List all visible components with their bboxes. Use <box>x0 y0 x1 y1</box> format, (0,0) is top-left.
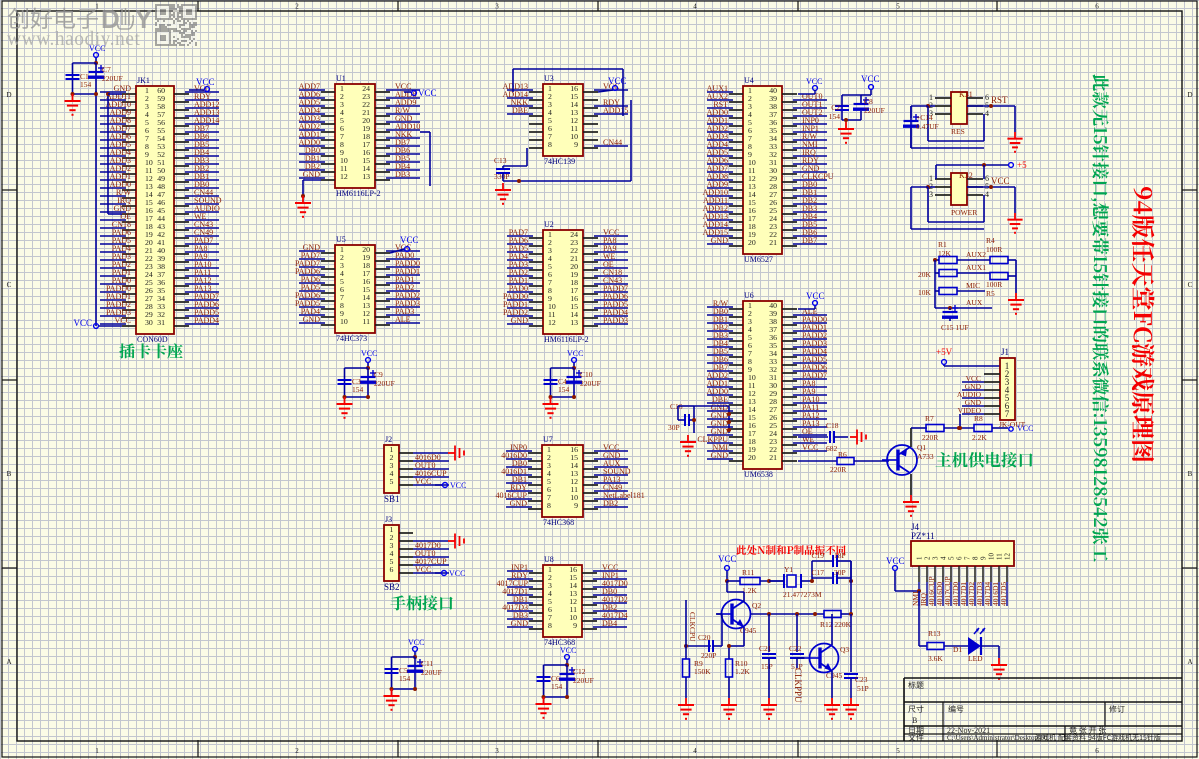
svg-text:RST: RST <box>991 95 1008 105</box>
svg-text:CLKCPU: CLKCPU <box>688 612 697 642</box>
svg-text:4: 4 <box>985 190 989 199</box>
svg-text:1: 1 <box>95 747 99 755</box>
svg-text:220UF: 220UF <box>864 106 885 115</box>
svg-text:PADD4: PADD4 <box>194 316 219 325</box>
svg-text:11: 11 <box>996 553 1004 560</box>
svg-text:8: 8 <box>547 501 551 510</box>
ground at x=832 oscillator <box>824 698 840 719</box>
svg-text:U5: U5 <box>336 235 346 244</box>
capacitor C16 30P <box>668 402 731 433</box>
svg-text:4: 4 <box>693 3 697 11</box>
svg-text:Q1: Q1 <box>917 443 926 452</box>
net label VCC at U3 pin16 <box>598 76 627 92</box>
wire GND loop left of JK1 <box>106 92 122 214</box>
capacitor C5 / C11 decoupling pair bottom left <box>384 638 442 710</box>
svg-text:+5V: +5V <box>936 347 953 357</box>
svg-text:30P: 30P <box>834 568 846 577</box>
svg-text:C945: C945 <box>740 626 757 635</box>
svg-text:D1: D1 <box>953 645 962 654</box>
svg-text:1: 1 <box>95 3 99 11</box>
ground below C13 <box>495 183 511 204</box>
svg-text:C945: C945 <box>826 671 843 680</box>
svg-text:AUX1: AUX1 <box>966 263 986 272</box>
watermark QR code <box>155 4 197 46</box>
svg-text:C: C <box>1188 281 1193 289</box>
resistor R2 20K <box>918 270 957 280</box>
capacitor C3 / C9 decoupling pair near U5 <box>337 349 395 418</box>
svg-text:1: 1 <box>916 556 924 560</box>
resistor R3 10K <box>918 288 957 298</box>
svg-text:R5: R5 <box>986 289 995 298</box>
svg-text:150K: 150K <box>694 667 711 676</box>
svg-text:Q2: Q2 <box>752 601 761 610</box>
capacitor C19 18P <box>811 551 851 581</box>
wire junction R7/R8 up to J1 pin1 <box>958 414 962 430</box>
IC U4 UM6527 <box>703 76 834 264</box>
svg-text:J2: J2 <box>385 435 392 444</box>
svg-text:VCC: VCC <box>450 481 466 490</box>
LED D1 <box>953 628 999 663</box>
svg-text:R8: R8 <box>974 414 983 423</box>
svg-text:CLKPPU: CLKPPU <box>793 668 803 703</box>
svg-text:220R: 220R <box>922 433 938 442</box>
svg-text:C10: C10 <box>580 370 593 379</box>
svg-text:UM6527: UM6527 <box>744 255 773 264</box>
svg-text:VCC: VCC <box>802 443 818 452</box>
svg-text:13: 13 <box>570 318 578 327</box>
svg-text:154: 154 <box>829 112 841 121</box>
ground at x=769 oscillator <box>761 698 777 719</box>
svg-text:9: 9 <box>573 621 577 630</box>
ground right of R4/R5 <box>1008 293 1024 314</box>
ground (sideways) right of C18 <box>850 430 866 445</box>
crystal Y1 21.477273M <box>769 565 822 599</box>
svg-text:74HC368: 74HC368 <box>543 518 574 527</box>
svg-text:VCC: VCC <box>806 291 825 301</box>
svg-text:SB2: SB2 <box>384 582 400 592</box>
resistor R4 100R <box>986 236 1016 264</box>
capacitor C13 330P <box>494 148 527 181</box>
net label VCC at U6 pin40 <box>798 291 825 309</box>
capacitor C22 51P <box>789 614 804 671</box>
svg-text:9: 9 <box>980 556 988 560</box>
label (red) 此处N制和P制晶振不同 <box>736 545 845 555</box>
svg-text:GND: GND <box>511 316 529 325</box>
svg-text:12: 12 <box>340 172 348 181</box>
svg-text:21: 21 <box>769 453 777 462</box>
svg-text:+C14: +C14 <box>916 113 933 122</box>
svg-text:VCC: VCC <box>991 176 1010 186</box>
svg-text:GND: GND <box>711 451 729 460</box>
svg-text:PADD3: PADD3 <box>603 316 628 325</box>
svg-text:C9: C9 <box>374 370 383 379</box>
svg-text:HM6116LP-2: HM6116LP-2 <box>336 189 381 198</box>
svg-text:J3: J3 <box>385 515 392 524</box>
svg-text:15P: 15P <box>761 662 773 671</box>
svg-text:51P: 51P <box>857 684 869 693</box>
svg-text:U7: U7 <box>543 435 553 444</box>
svg-text:C:\Users\Administrator\Desktop: C:\Users\Administrator\Desktop\FC <box>947 734 1049 742</box>
resistor R5 100R <box>986 273 1016 299</box>
svg-text:11: 11 <box>362 317 370 326</box>
svg-text:R6: R6 <box>838 450 847 459</box>
svg-text:220UF: 220UF <box>374 379 395 388</box>
ground below Q1 <box>903 495 919 516</box>
svg-text:74HC373: 74HC373 <box>336 334 367 343</box>
svg-text:R13: R13 <box>928 629 941 638</box>
svg-text:12: 12 <box>1004 553 1012 561</box>
svg-text:154: 154 <box>352 385 364 394</box>
net label VCC at U1 pin24 <box>404 88 437 98</box>
svg-text:VCC: VCC <box>89 44 105 53</box>
svg-text:330P: 330P <box>494 172 509 181</box>
svg-text:2.2K: 2.2K <box>972 433 987 442</box>
IC JK1 CON60D <box>100 76 222 344</box>
svg-text:C12: C12 <box>573 667 586 676</box>
label CLKPPU vertical <box>793 668 803 703</box>
IC U1 HM6116LP-2 <box>299 74 421 198</box>
svg-text:U2: U2 <box>544 220 554 229</box>
svg-text:8: 8 <box>548 140 552 149</box>
wire bus left of R1-R3 and AUX <box>935 260 992 310</box>
svg-text:30: 30 <box>145 318 153 327</box>
svg-text:220UF: 220UF <box>102 74 123 83</box>
IC U7 74HC368 <box>495 435 644 527</box>
net label VCC at U5 pin20 <box>390 235 419 253</box>
svg-text:U4: U4 <box>744 76 754 85</box>
IC U6 UM6538 <box>697 291 827 479</box>
svg-text:U1: U1 <box>336 74 346 83</box>
svg-text:R7: R7 <box>925 414 934 423</box>
svg-text:DBE: DBE <box>512 106 528 115</box>
svg-text:5: 5 <box>390 477 394 486</box>
svg-text:5: 5 <box>896 747 900 755</box>
capacitor C18 682 <box>798 421 848 453</box>
transistor Q2 C945 <box>717 600 762 636</box>
resistor R8 2.2K <box>972 414 1008 442</box>
capacitor C17 30P <box>810 568 853 584</box>
svg-text:6: 6 <box>1095 747 1099 755</box>
svg-text:D: D <box>6 91 11 99</box>
svg-text:10: 10 <box>988 553 996 561</box>
svg-text:1.2K: 1.2K <box>735 667 750 676</box>
svg-text:VCC: VCC <box>115 316 131 325</box>
wire Q2 collector up to R11 node <box>727 581 744 602</box>
capacitor C14 0.47UF <box>903 106 939 148</box>
svg-text:B: B <box>912 716 917 725</box>
svg-text:C22: C22 <box>789 644 802 653</box>
ground below C2/C8 <box>838 122 854 143</box>
svg-text:GND: GND <box>511 619 529 628</box>
svg-text:D: D <box>1187 91 1192 99</box>
svg-text:DB4: DB4 <box>602 619 617 628</box>
svg-text:4: 4 <box>693 747 697 755</box>
svg-text:74HC368: 74HC368 <box>544 638 575 647</box>
svg-text:7: 7 <box>964 556 972 560</box>
capacitor C21 15P <box>759 614 776 698</box>
svg-text:R4: R4 <box>986 236 995 245</box>
net JK-OUT with VCC <box>999 420 1033 433</box>
net VCC left of J4 <box>886 556 921 593</box>
svg-text:5: 5 <box>896 3 900 11</box>
svg-text:20: 20 <box>748 453 756 462</box>
svg-text:GND: GND <box>711 236 729 245</box>
svg-text:154: 154 <box>399 674 411 683</box>
svg-text:GND: GND <box>510 499 528 508</box>
svg-text:2: 2 <box>295 747 299 755</box>
wire U3 top loop <box>513 69 623 116</box>
svg-text:13: 13 <box>362 172 370 181</box>
svg-text:VCC: VCC <box>415 565 431 574</box>
label socket (green) 插卡卡座 <box>119 343 182 358</box>
connector J3 (SB2) <box>384 515 449 592</box>
ground below C16 <box>680 435 696 456</box>
svg-text:R12 220K: R12 220K <box>820 620 852 629</box>
capacitor C20 220P <box>698 614 722 660</box>
svg-text:Q3: Q3 <box>840 645 849 654</box>
svg-text:220P: 220P <box>701 651 716 660</box>
wire AUX1 <box>957 263 990 273</box>
resistor R1 12K <box>933 240 957 264</box>
svg-text:C23: C23 <box>855 675 868 684</box>
wire Q3 base/collector/emitter <box>797 614 851 698</box>
switch K31 RES <box>911 90 1023 152</box>
svg-text:2: 2 <box>924 556 932 560</box>
svg-text:GND: GND <box>303 170 321 179</box>
svg-text:A: A <box>1187 658 1192 666</box>
svg-text:SB1: SB1 <box>384 494 400 504</box>
ground at x=686 oscillator <box>678 698 694 719</box>
svg-text:C13: C13 <box>494 156 507 165</box>
wire U1 GND to ground <box>301 180 321 198</box>
svg-text:DB3: DB3 <box>395 170 410 179</box>
wire MIC <box>957 281 985 291</box>
switch K32 POWER <box>911 171 1023 233</box>
svg-text:6: 6 <box>956 556 964 560</box>
wire D1 to ground <box>998 646 1000 658</box>
net VCC above R11 <box>718 554 737 583</box>
svg-text:VCC: VCC <box>408 638 424 647</box>
svg-text:C21: C21 <box>759 644 772 653</box>
svg-text:2: 2 <box>295 3 299 11</box>
svg-text:VCC: VCC <box>567 349 583 358</box>
svg-text:C20: C20 <box>698 633 711 642</box>
svg-text:POWER: POWER <box>951 208 977 217</box>
svg-text:3: 3 <box>495 747 499 755</box>
IC U8 74HC368 <box>496 555 627 647</box>
capacitor C15 1UF <box>941 305 969 332</box>
wire U1 right DB loop <box>420 132 430 186</box>
svg-text:CON60D: CON60D <box>137 335 168 344</box>
svg-text:R11: R11 <box>742 568 754 577</box>
svg-text:154: 154 <box>551 682 563 691</box>
label (green) 手柄接口 <box>390 595 452 610</box>
wire right bus to ground <box>1015 260 1017 293</box>
connector J1 JK-OUT socket <box>957 347 1015 420</box>
label CLKCPU vertical <box>688 612 697 642</box>
svg-text:10K: 10K <box>918 288 932 297</box>
svg-text:100R: 100R <box>986 280 1002 289</box>
svg-text:220UF: 220UF <box>573 676 594 685</box>
svg-text:PZ*11: PZ*11 <box>911 531 935 541</box>
svg-text:+5: +5 <box>1017 160 1027 170</box>
svg-text:AUX2: AUX2 <box>966 250 986 259</box>
svg-text:JK1: JK1 <box>137 76 150 85</box>
svg-text:VCC: VCC <box>861 74 880 84</box>
title block <box>904 678 1182 742</box>
svg-text:C2: C2 <box>831 103 840 112</box>
svg-text:C: C <box>7 281 12 289</box>
svg-text:5: 5 <box>948 556 956 560</box>
wire VCC vertical to JK1 pin30 <box>73 91 122 328</box>
resistor R10 1.2K <box>726 644 751 698</box>
svg-text:RES: RES <box>951 127 965 136</box>
svg-text:3.6K: 3.6K <box>928 654 943 663</box>
svg-text:4: 4 <box>985 109 989 118</box>
connector J2 (SB1) <box>384 435 449 504</box>
svg-text:30P: 30P <box>668 423 680 432</box>
svg-text:12: 12 <box>548 318 556 327</box>
svg-text:HM6116LP-2: HM6116LP-2 <box>544 335 589 344</box>
svg-text:C11: C11 <box>421 659 433 668</box>
net +5V at J1 <box>936 347 1000 366</box>
svg-text:VCC: VCC <box>806 77 822 86</box>
svg-text:VCC: VCC <box>361 349 377 358</box>
svg-text:7: 7 <box>1005 409 1010 419</box>
resistor R11 1.2K <box>727 568 784 595</box>
wire AUX2 <box>957 250 990 260</box>
svg-text:A733: A733 <box>917 452 934 461</box>
svg-text:R1: R1 <box>938 240 947 249</box>
svg-text:DB7: DB7 <box>802 236 817 245</box>
ground (sideways) at J2 pin1 <box>448 446 464 461</box>
svg-text:C17: C17 <box>811 568 824 577</box>
svg-text:8: 8 <box>972 556 980 560</box>
svg-text:3: 3 <box>495 3 499 11</box>
svg-text:6: 6 <box>1095 3 1099 11</box>
svg-text:U6: U6 <box>744 291 754 300</box>
svg-text:VCC: VCC <box>196 77 215 87</box>
svg-text:C8: C8 <box>864 97 873 106</box>
svg-text:20: 20 <box>748 238 756 247</box>
svg-text:220UF: 220UF <box>421 668 442 677</box>
capacitor C2 / C8 pair near U4 <box>829 74 885 122</box>
svg-text:74HC139: 74HC139 <box>544 157 575 166</box>
capacitor C23 51P <box>844 658 869 698</box>
svg-text:220R: 220R <box>830 465 846 474</box>
svg-text:8: 8 <box>548 621 552 630</box>
svg-text:6: 6 <box>390 565 394 574</box>
svg-text:U8: U8 <box>544 555 554 564</box>
svg-text:682: 682 <box>826 444 838 453</box>
net VCC at J3 pin5 <box>435 569 465 578</box>
svg-text:3: 3 <box>929 190 933 199</box>
transistor Q3 C945 <box>805 644 850 681</box>
transistor Q1 A733 <box>882 443 934 475</box>
svg-text:18P: 18P <box>834 551 846 560</box>
wire J2 pin1 to sideways ground <box>413 452 448 454</box>
svg-text:VCC: VCC <box>418 88 437 98</box>
svg-text:C7: C7 <box>102 65 111 74</box>
svg-text:4017D5: 4017D5 <box>999 582 1008 606</box>
svg-text:220UF: 220UF <box>580 379 601 388</box>
svg-text:4: 4 <box>940 556 948 560</box>
net +5 at K32 <box>936 160 1027 179</box>
capacitor C4 / C10 decoupling pair near U2 <box>543 349 601 418</box>
resistor R12 220K <box>820 561 853 645</box>
wire Q2 base <box>716 613 722 615</box>
wire J3 pin2 to sideways ground <box>413 540 448 542</box>
net label VCC at U4 pin40 <box>798 77 822 94</box>
svg-text:CN44: CN44 <box>603 138 622 147</box>
svg-text:MIC: MIC <box>966 281 980 290</box>
svg-text:154: 154 <box>80 80 92 89</box>
svg-text:9: 9 <box>574 501 578 510</box>
svg-text:www.haodiy.net: www.haodiy.net <box>7 29 140 50</box>
svg-text:ALE: ALE <box>395 315 411 324</box>
svg-text:Y1: Y1 <box>784 565 793 574</box>
label (green) 主机供电接口 <box>936 452 1033 468</box>
svg-text:154: 154 <box>558 385 570 394</box>
resistor R6 220R <box>798 450 889 474</box>
svg-text:21.477273M: 21.477273M <box>783 590 822 599</box>
svg-text:VCC: VCC <box>400 235 419 245</box>
svg-text:DB2: DB2 <box>603 499 618 508</box>
svg-text:0.47UF: 0.47UF <box>916 122 939 131</box>
title (green vertical) contact info <box>1091 74 1109 561</box>
wire U3 pin15 to C13 bottom rail <box>503 100 631 183</box>
net label VCC at JK1 pin31 <box>189 77 215 91</box>
svg-text:3: 3 <box>932 556 940 560</box>
svg-text:U3: U3 <box>544 74 554 83</box>
capacitor C6 / C12 decoupling pair bottom mid <box>536 646 594 718</box>
resistor R7 220R <box>922 414 974 442</box>
ground below D1 <box>991 658 1007 679</box>
wire Q1 collector to R7 and emitter to ground <box>911 428 927 495</box>
connector J4 PZ*11 <box>911 522 1014 606</box>
svg-text:A: A <box>6 658 11 666</box>
svg-text:31: 31 <box>157 318 165 327</box>
svg-text:VCC: VCC <box>415 477 431 486</box>
svg-text:B: B <box>1188 470 1193 478</box>
svg-text:C15 1UF: C15 1UF <box>941 323 969 332</box>
svg-text:UM6538: UM6538 <box>744 470 773 479</box>
capacitor C1 / C7 decoupling pair near JK1 <box>65 44 123 115</box>
wire CLKCPU branch left <box>684 600 711 659</box>
resistor R9 150K <box>683 659 712 698</box>
svg-text:VCC: VCC <box>718 554 737 564</box>
svg-text:VCC: VCC <box>73 318 92 328</box>
svg-text:VCC: VCC <box>449 569 465 578</box>
ground below U1 <box>295 196 311 217</box>
svg-text:VCC: VCC <box>560 646 576 655</box>
svg-text:LED: LED <box>968 654 983 663</box>
IC U3 74HC139 <box>503 74 629 166</box>
svg-text:21: 21 <box>769 238 777 247</box>
wire Q2 emitter / collector row to R12 <box>729 612 824 646</box>
svg-text:C19: C19 <box>811 551 824 560</box>
svg-text:10: 10 <box>340 317 348 326</box>
ground (sideways) at J3 pin2 <box>448 534 464 549</box>
svg-text:100R: 100R <box>986 245 1002 254</box>
ground at x=851 oscillator <box>843 698 859 719</box>
IC U5 74HC373 <box>295 235 420 343</box>
IC U2 HM6116LP-2 <box>503 220 628 344</box>
title (red vertical) 94版任天堂FC游戏原理图 <box>1132 187 1155 462</box>
resistor R13 3.6K <box>927 629 968 663</box>
svg-text:C18: C18 <box>826 421 839 430</box>
svg-text:GND: GND <box>303 315 321 324</box>
